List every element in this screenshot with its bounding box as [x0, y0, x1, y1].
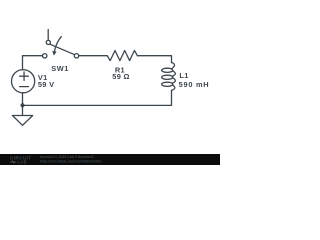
ground	[12, 116, 32, 126]
switch SW1 right terminal circle	[74, 54, 78, 58]
switch SW1 arrowhead	[53, 51, 56, 55]
voltage source V1 circle	[12, 70, 35, 93]
svg-text:L1: L1	[179, 71, 188, 80]
wire V1 bottom to junction	[22, 93, 24, 106]
footer black bar	[0, 154, 220, 165]
V1 minus sign	[20, 86, 29, 88]
wire switch to resistor	[79, 55, 108, 57]
wire resistor to inductor corner	[137, 56, 171, 63]
switch SW1 left terminal circle	[43, 54, 47, 58]
svg-text:LAB: LAB	[18, 160, 28, 165]
inductor L1 coil right strand	[172, 62, 176, 90]
switch SW1 top stub	[47, 30, 49, 41]
wire top-left from V1 to switch	[23, 56, 43, 70]
resistor R1 zigzag	[107, 51, 137, 61]
inductor L1 coil loop 3	[162, 82, 173, 86]
inductor L1 coil loop 1	[162, 68, 173, 72]
switch SW1 blade	[50, 44, 74, 54]
svg-text:59 V: 59 V	[38, 80, 54, 89]
svg-text:SW1: SW1	[51, 64, 69, 73]
switch SW1 actuator arc	[55, 37, 62, 52]
footer logo resistor squiggle	[10, 161, 16, 164]
V1 plus sign	[20, 72, 29, 81]
svg-text:http://circuitlab.com/c2dd8827: http://circuitlab.com/c2dd8827639kc	[40, 159, 102, 163]
inductor L1 coil loop 2	[162, 75, 173, 79]
wire ground stem	[22, 105, 24, 115]
svg-text:59 Ω: 59 Ω	[112, 72, 129, 81]
node junction dot	[21, 103, 25, 107]
svg-text:590 mH: 590 mH	[179, 80, 210, 89]
switch SW1 top terminal circle	[46, 40, 50, 44]
wire inductor bottom to bottom rail	[23, 90, 172, 105]
